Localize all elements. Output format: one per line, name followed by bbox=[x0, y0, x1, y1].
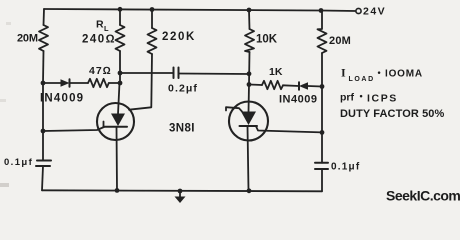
wire T2 anode lead bbox=[248, 85, 251, 113]
svg-text:ICPS: ICPS bbox=[367, 93, 398, 105]
node dot right diode bbox=[320, 84, 325, 89]
wire Q1 bottom lead bbox=[116, 127, 119, 190]
wire 10K bottom lead bbox=[248, 52, 251, 85]
wire left rail mid bbox=[42, 51, 45, 83]
node dot 10K cap bbox=[247, 71, 252, 76]
node dot Q2 bottom bbox=[247, 188, 252, 193]
svg-text:I: I bbox=[341, 66, 346, 80]
wire bottom rail bbox=[42, 190, 322, 191]
wire T1 anode lead bbox=[118, 83, 120, 114]
transistor Q2 cathode bar bbox=[240, 125, 258, 127]
node dot left diode bbox=[41, 81, 46, 86]
wire left rail lower bbox=[42, 83, 44, 131]
svg-text:LOAD: LOAD bbox=[349, 76, 375, 83]
transistor Q1 cathode bar bbox=[104, 126, 128, 128]
wire right cap top lead bbox=[321, 132, 323, 162]
svg-text:20M: 20M bbox=[329, 35, 351, 47]
transistor Q1 arrow bbox=[111, 114, 125, 127]
transistor Q2 gate stub bbox=[226, 107, 242, 111]
scan smudge mid left bbox=[0, 99, 6, 102]
wire RL bottom lead bbox=[119, 51, 121, 83]
wire 0.2uf right lead bbox=[179, 73, 250, 76]
svg-text:220K: 220K bbox=[162, 31, 196, 43]
node dot RL cap bbox=[118, 71, 123, 76]
resistor 1K bbox=[262, 81, 283, 89]
transistor Q2 arrow bbox=[241, 112, 256, 126]
wire right rail upper lead bbox=[321, 53, 323, 87]
svg-text:IOOMA: IOOMA bbox=[385, 69, 423, 80]
svg-text:20M: 20M bbox=[17, 33, 38, 45]
svg-text:L: L bbox=[104, 24, 109, 33]
svg-text:240Ω: 240Ω bbox=[82, 34, 116, 46]
wire 47ohm to node bbox=[109, 82, 120, 84]
wire left diode lead bbox=[43, 82, 61, 84]
svg-text:0.1μf: 0.1μf bbox=[4, 157, 33, 168]
wire 1K left lead bbox=[249, 84, 262, 87]
diode CR2 1N4009 arrow bbox=[299, 82, 308, 89]
wire 1K to diode bbox=[283, 84, 299, 87]
resistor 220K leads bbox=[151, 10, 153, 29]
node dot ground bbox=[178, 189, 183, 194]
svg-text:IN4009: IN4009 bbox=[279, 94, 317, 106]
capacitor C3 0.2uf bbox=[174, 68, 179, 79]
svg-text:•: • bbox=[378, 68, 381, 78]
transistor Q2 3N81 circle bbox=[229, 102, 268, 141]
node dot Q1 cathode left bbox=[41, 129, 46, 134]
svg-text:47Ω: 47Ω bbox=[89, 65, 112, 77]
node dot 20M top bbox=[319, 8, 324, 13]
scan smudge left edge bbox=[0, 183, 9, 187]
wire right rail mid bbox=[321, 87, 323, 133]
resistor 220K bbox=[148, 28, 157, 54]
wire left cap bottom lead bbox=[42, 166, 43, 190]
svg-text:•: • bbox=[360, 91, 363, 101]
scan smudge top left bbox=[6, 22, 11, 25]
resistor 20M left bbox=[39, 25, 48, 51]
wire +24V feed bbox=[321, 10, 356, 13]
wire Q2 cathode to right rail bbox=[256, 126, 322, 132]
svg-text:IN4009: IN4009 bbox=[40, 93, 84, 105]
terminal +24V bbox=[356, 8, 361, 13]
svg-text:SeekIC.com: SeekIC.com bbox=[386, 188, 460, 204]
capacitor C1 0.1uf left bbox=[36, 161, 51, 167]
svg-text:1K: 1K bbox=[269, 66, 283, 78]
svg-text:DUTY FACTOR 50%: DUTY FACTOR 50% bbox=[340, 108, 445, 120]
wire diode to 47ohm bbox=[70, 82, 89, 84]
node dot 220K top bbox=[150, 7, 155, 12]
svg-text:prf: prf bbox=[340, 92, 355, 104]
transistor Q1 cathode tick bbox=[103, 122, 105, 128]
wire 0.2uf left lead bbox=[120, 72, 174, 74]
wire 220K to T1 gate bbox=[129, 54, 152, 110]
resistor 20M right bbox=[318, 11, 327, 54]
transistor Q1 3N81 circle bbox=[97, 103, 134, 140]
wire left cap top lead bbox=[42, 131, 44, 161]
resistor RL 240 ohm bbox=[116, 25, 125, 51]
svg-text:0.2μf: 0.2μf bbox=[168, 83, 198, 95]
ground symbol bbox=[175, 197, 186, 204]
resistor 10K lead bbox=[248, 10, 251, 29]
svg-text:R: R bbox=[96, 19, 104, 31]
ground stub bbox=[179, 191, 181, 197]
resistor RL 240 ohm leads bbox=[119, 9, 121, 25]
wire right rail cap bottom lead bbox=[321, 169, 323, 191]
node dot 10K 1K bbox=[247, 82, 252, 87]
capacitor C2 0.1uf right bbox=[315, 163, 328, 169]
wire diode2 to right rail bbox=[308, 85, 322, 88]
node dot RL top bbox=[118, 7, 123, 12]
svg-text:24V: 24V bbox=[363, 6, 386, 18]
diode CR1 1N4009 arrow bbox=[61, 79, 70, 86]
node dot Q1 bottom bbox=[115, 188, 120, 193]
wire Q1 cathode to left rail bbox=[43, 127, 104, 131]
resistor 10K bbox=[245, 29, 254, 52]
node dot Q2 cathode right bbox=[320, 130, 325, 135]
svg-text:10K: 10K bbox=[256, 34, 278, 46]
diode CR1 1N4009 bar bbox=[69, 79, 71, 86]
diode CR2 1N4009 bar bbox=[298, 82, 300, 89]
svg-text:0.1μf: 0.1μf bbox=[331, 162, 360, 173]
resistor 47 ohm bbox=[88, 79, 109, 87]
wire Q2 bottom lead bbox=[248, 126, 249, 191]
wire left rail upper bbox=[43, 9, 46, 25]
wire top rail bbox=[44, 9, 321, 11]
node dot RL 47ohm bbox=[118, 81, 123, 86]
svg-text:3N8I: 3N8I bbox=[169, 123, 195, 135]
node dot 10K top bbox=[247, 8, 252, 13]
